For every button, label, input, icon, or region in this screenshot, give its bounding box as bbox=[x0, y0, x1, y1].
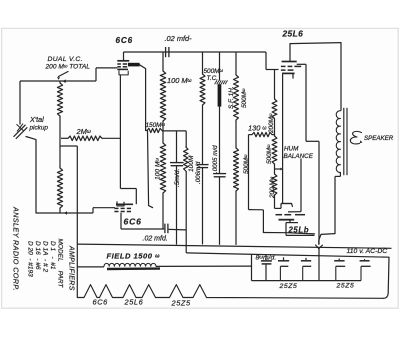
svg-text:X'tal: X'tal bbox=[29, 115, 44, 124]
svg-text:DUAL V.C.: DUAL V.C. bbox=[48, 56, 83, 63]
svg-text:HUM: HUM bbox=[284, 146, 299, 153]
svg-text:FIELD 1500 ω: FIELD 1500 ω bbox=[107, 251, 161, 260]
svg-text:ANSLEY RADIO CORP.: ANSLEY RADIO CORP. bbox=[12, 206, 21, 291]
svg-text:T.C.: T.C. bbox=[207, 75, 218, 82]
svg-text:S.F. 1H.: S.F. 1H. bbox=[228, 86, 235, 109]
svg-text:25Z5: 25Z5 bbox=[279, 283, 298, 290]
svg-text:25L6: 25L6 bbox=[282, 29, 304, 39]
svg-text:8ωm/d.: 8ωm/d. bbox=[256, 254, 277, 262]
svg-text:25Z5: 25Z5 bbox=[171, 298, 192, 307]
svg-text:6C6: 6C6 bbox=[116, 36, 133, 45]
svg-text:25Z5: 25Z5 bbox=[336, 282, 355, 289]
svg-text:.02 mfd.: .02 mfd. bbox=[143, 235, 168, 242]
svg-text:.0005 m/d: .0005 m/d bbox=[212, 145, 219, 173]
svg-text:AMPLIFIERS: AMPLIFIERS bbox=[68, 245, 75, 291]
svg-text:.006m/d: .006m/d bbox=[195, 161, 202, 184]
svg-text:6C6: 6C6 bbox=[93, 297, 109, 306]
svg-text:pickup: pickup bbox=[29, 125, 49, 132]
svg-text:100M: 100M bbox=[188, 155, 195, 172]
svg-text:200 Mω TOTAL: 200 Mω TOTAL bbox=[45, 63, 91, 71]
svg-text:.5m/d.: .5m/d. bbox=[174, 169, 181, 187]
svg-text:D 1 - #1: D 1 - #1 bbox=[49, 241, 56, 270]
svg-text:.02 mfd-: .02 mfd- bbox=[165, 34, 193, 43]
svg-text:110 v. AC-DC: 110 v. AC-DC bbox=[347, 248, 388, 255]
svg-text:SPEAKER: SPEAKER bbox=[364, 135, 394, 142]
svg-text:25Lb: 25Lb bbox=[288, 225, 310, 234]
svg-text:MODEL PART: MODEL PART bbox=[57, 239, 64, 289]
svg-text:25L6: 25L6 bbox=[124, 297, 144, 306]
svg-text:D 16 - #6: D 16 - #6 bbox=[34, 241, 41, 270]
svg-text:D 20 - #193: D 20 - #193 bbox=[27, 241, 34, 277]
svg-text:D 1A - # 2: D 1A - # 2 bbox=[42, 241, 49, 272]
svg-text:6C6: 6C6 bbox=[124, 217, 142, 227]
svg-text:BALANCE: BALANCE bbox=[284, 153, 314, 160]
